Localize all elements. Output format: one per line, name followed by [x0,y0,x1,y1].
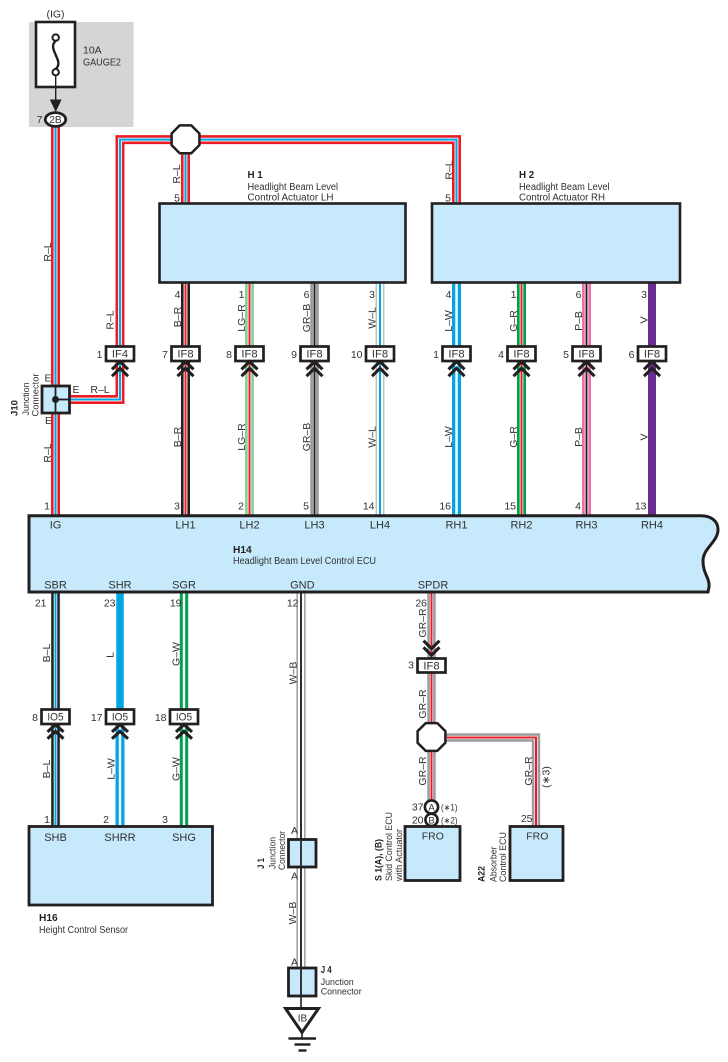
svg-text:LH1: LH1 [175,520,195,532]
svg-text:A: A [291,871,298,883]
connector 2B oval [45,113,65,127]
svg-text:23: 23 [104,597,116,609]
svg-text:(∗2): (∗2) [441,816,458,826]
svg-text:1: 1 [433,349,439,361]
svg-text:B: B [428,815,434,826]
svg-text:RH4: RH4 [641,520,663,532]
wire L-W H2 pin 4 to H14 pin RH1 [452,283,461,516]
svg-text:(∗3): (∗3) [541,766,553,788]
arrow chevrons at x=120.0 [112,362,128,377]
arrow chevrons at x=521.5 [514,362,530,377]
svg-text:16: 16 [439,500,451,512]
svg-text:2: 2 [238,500,244,512]
wire P-B H2 pin 6 to H14 pin RH3 [582,283,591,516]
svg-text:2B: 2B [49,115,62,126]
svg-text:RH1: RH1 [445,520,467,532]
svg-text:IF8: IF8 [372,349,388,361]
svg-text:A: A [291,957,298,969]
svg-text:A: A [291,825,298,837]
svg-text:B–R: B–R [172,306,184,327]
svg-text:3: 3 [162,814,168,826]
svg-text:IO5: IO5 [176,712,192,724]
connector IF8 pin 10 [351,347,394,362]
svg-text:R–L: R–L [444,160,456,179]
wire R-L branch J10 to IF4 to top rail and H2 pin 5 [68,140,457,400]
svg-text:5: 5 [303,500,309,512]
svg-text:2: 2 [103,814,109,826]
svg-text:12: 12 [287,597,299,609]
wire J4 to ground triangle [300,996,302,1009]
svg-text:R–L: R–L [90,384,109,396]
svg-text:8: 8 [226,349,232,361]
fuse F 10A GAUGE2 box [36,22,75,87]
arrow chevrons at x=652.0 [644,362,660,377]
svg-text:IF8: IF8 [241,349,257,361]
svg-text:IF8: IF8 [423,660,439,672]
svg-text:L–W: L–W [443,310,455,332]
svg-text:IF8: IF8 [513,349,529,361]
svg-text:IF8: IF8 [448,349,464,361]
svg-text:W–B: W–B [288,662,300,685]
svg-text:3: 3 [369,289,375,301]
svg-text:4: 4 [446,289,452,301]
svg-text:A: A [428,803,435,814]
svg-text:GAUGE2: GAUGE2 [83,57,121,69]
svg-text:1: 1 [511,289,517,301]
svg-text:FRO: FRO [526,830,548,842]
svg-text:19: 19 [170,597,182,609]
svg-text:GR–R: GR–R [417,756,429,786]
svg-text:Height Control Sensor: Height Control Sensor [39,925,129,936]
svg-text:8: 8 [32,712,38,724]
svg-text:LH4: LH4 [370,520,390,532]
svg-text:37: 37 [412,802,424,814]
op H1 Headlight Beam Level Control Actuator LH box [160,204,406,283]
arrow chevrons at x=314.5 [307,362,323,377]
svg-text:SHRR: SHRR [104,832,135,844]
junction connector J10 [42,386,70,413]
svg-text:RH2: RH2 [510,520,532,532]
connector circle B pin 20 [425,814,437,826]
svg-text:IF8: IF8 [644,349,660,361]
svg-text:25: 25 [521,813,533,825]
svg-text:E: E [44,373,51,385]
svg-text:R–L: R–L [42,242,54,261]
connector IO5 pin 18 [155,710,198,725]
svg-text:3: 3 [641,289,647,301]
wire B-R H1 pin 4 to H14 pin LH1 [181,283,190,516]
connector IF8 pin 9 [291,347,328,362]
arrow chevrons at x=380.0 [372,362,388,377]
svg-text:SHB: SHB [44,832,67,844]
arrowhead into 2B [50,100,62,113]
wire R-L octagon splice to H1 pin 5 [181,140,190,204]
connector IO5 pin 17 [91,710,134,725]
svg-text:13: 13 [635,500,647,512]
svg-text:LH2: LH2 [239,520,259,532]
svg-text:S 1(A), (B): S 1(A), (B) [374,839,385,881]
wire GR-R octagon splice to A22 pin 25 [432,738,537,827]
svg-text:IF8: IF8 [306,349,322,361]
wire B-L H14 SBR to H16 SHB [51,593,60,827]
svg-text:IF8: IF8 [177,349,193,361]
ECU A22 Absorber Control ECU box [510,827,563,881]
svg-text:P–B: P–B [573,427,585,447]
arrow chevrons down SPDR [424,641,440,656]
svg-text:14: 14 [363,500,375,512]
arrow chevrons at x=185.5 [178,362,194,377]
svg-text:IG: IG [50,520,62,532]
svg-text:5: 5 [174,193,180,205]
svg-text:LG–R: LG–R [236,423,248,451]
svg-text:R–L: R–L [42,443,54,462]
svg-text:Control Actuator RH: Control Actuator RH [519,193,605,204]
svg-text:1: 1 [44,500,50,512]
svg-text:V: V [639,316,651,323]
wire GR-R H14 SPDR to skid control ECU [427,593,435,801]
junction connector J4 [289,968,317,996]
svg-text:L: L [105,652,117,658]
svg-text:R–L: R–L [171,164,183,183]
svg-text:W–L: W–L [367,426,379,448]
svg-text:H 2: H 2 [519,170,535,181]
svg-text:7: 7 [162,349,168,361]
ground triangle IB [286,1009,319,1033]
svg-text:G–W: G–W [171,757,183,781]
svg-text:6: 6 [304,289,310,301]
svg-text:9: 9 [291,349,297,361]
svg-text:W–B: W–B [287,902,299,925]
svg-text:SBR: SBR [44,580,67,592]
connector IF8 pin 8 [226,347,263,362]
svg-text:1: 1 [97,349,103,361]
svg-text:IO5: IO5 [47,712,63,724]
svg-text:SPDR: SPDR [418,580,449,592]
svg-text:G–R: G–R [508,426,520,448]
svg-text:17: 17 [91,712,103,724]
svg-text:(∗1): (∗1) [441,803,458,813]
H16 pin names SHB SHRR SHG [44,832,196,844]
op H2 Headlight Beam Level Control Actuator RH box [432,204,680,283]
svg-text:21: 21 [35,597,47,609]
connector IF4 pin 1 [97,347,134,362]
svg-text:1: 1 [44,814,50,826]
svg-text:6: 6 [629,349,635,361]
svg-text:Headlight Beam Level Control E: Headlight Beam Level Control ECU [233,556,376,567]
svg-text:P–B: P–B [573,311,585,331]
wire G-R H2 pin 1 to H14 pin RH2 [517,283,526,516]
svg-text:IF8: IF8 [578,349,594,361]
svg-text:L–W: L–W [106,758,118,780]
svg-text:18: 18 [155,712,167,724]
arrow chevrons at x=249.5 [242,362,258,377]
wire V H2 pin 3 to H14 pin RH4 [648,283,656,516]
svg-text:1: 1 [239,289,245,301]
svg-text:G–W: G–W [171,642,183,666]
svg-text:4: 4 [575,500,581,512]
svg-text:GR–R: GR–R [417,608,429,638]
svg-text:SHG: SHG [172,832,196,844]
svg-text:3: 3 [408,660,414,672]
svg-text:10A: 10A [83,45,102,57]
svg-text:J10: J10 [10,400,21,416]
wire LG-R H1 pin 1 to H14 pin LH2 [245,283,254,516]
svg-text:R–L: R–L [105,310,117,329]
splice octagon top rail [172,125,200,153]
svg-text:with Actuator: with Actuator [394,829,405,882]
sensor H16 Height Control Sensor box [29,827,213,906]
svg-text:Headlight Beam Level: Headlight Beam Level [248,182,339,193]
gray background block of fuse [29,22,134,127]
svg-text:J 1: J 1 [256,857,267,869]
svg-text:Connector: Connector [321,987,362,998]
svg-text:Control Actuator LH: Control Actuator LH [248,193,334,204]
svg-text:LG–R: LG–R [236,304,248,332]
arrow chevrons at x=120.0 below IO5 [112,725,128,739]
connector IF8 pin 5 [563,347,600,362]
arrow chevrons at x=456.5 [449,362,465,377]
H14 bottom pin names SBR SHR SGR GND SPDR [44,580,448,592]
svg-text:5: 5 [563,349,569,361]
svg-text:26: 26 [415,597,427,609]
svg-text:B–R: B–R [172,426,184,447]
svg-text:GR–B: GR–B [301,423,313,452]
svg-text:7: 7 [37,114,43,126]
svg-text:4: 4 [175,289,181,301]
svg-text:5: 5 [445,193,451,205]
svg-text:B–L: B–L [41,644,53,663]
svg-text:Connector: Connector [30,374,41,417]
svg-text:GR–R: GR–R [417,689,429,719]
svg-text:H16: H16 [39,913,58,924]
svg-text:B–L: B–L [41,760,53,779]
connector IF8 pin 6 [629,347,666,362]
svg-text:IO5: IO5 [112,712,128,724]
svg-text:W–L: W–L [367,307,379,329]
svg-text:GR–R: GR–R [523,756,535,786]
svg-text:10: 10 [351,349,363,361]
connector circle A pin 37 [425,800,438,813]
svg-text:Control ECU: Control ECU [498,832,509,882]
ECU H14 Headlight Beam Level Control ECU box [29,516,718,592]
svg-text:A22: A22 [477,866,488,882]
svg-text:IB: IB [298,1014,308,1025]
svg-text:SHR: SHR [108,580,131,592]
junction connector J1 [289,840,317,868]
H14 top pin names IG LH1-LH4 RH1-RH4 [50,520,663,532]
wire R-L from 2B to H14 pin IG [51,127,60,516]
svg-text:E: E [45,415,52,427]
wire L-W IO5 to H16 SHRR [116,721,125,827]
svg-text:4: 4 [498,349,504,361]
svg-text:15: 15 [504,500,516,512]
svg-text:H14: H14 [233,545,252,556]
svg-text:H 1: H 1 [248,170,264,181]
wire GR-B H1 pin 6 to H14 pin LH3 [310,283,319,516]
svg-text:G–R: G–R [508,310,520,332]
svg-text:LH3: LH3 [304,520,324,532]
svg-text:GND: GND [290,580,315,592]
wire W-B H14 GND to J4 [297,593,306,996]
svg-text:E: E [72,384,79,396]
svg-text:L–W: L–W [443,426,455,448]
svg-text:V: V [639,433,651,440]
connector IO5 pin 8 [32,710,69,725]
svg-text:RH3: RH3 [575,520,597,532]
svg-text:GR–B: GR–B [301,304,313,333]
connector IF8 pin 7 [162,347,199,362]
connector IF8 pin 3 [408,659,445,673]
svg-text:Headlight Beam Level: Headlight Beam Level [519,182,610,193]
svg-text:IF4: IF4 [112,349,128,361]
svg-text:3: 3 [174,500,180,512]
svg-text:J 4: J 4 [321,965,332,976]
svg-text:SGR: SGR [172,580,196,592]
svg-text:(IG): (IG) [46,9,64,21]
wire W-L H1 pin 3 to H14 pin LH4 [376,283,385,516]
splice octagon GR-R [418,723,446,751]
connector IF8 pin 1 right [433,347,470,362]
wire fuse to connector 2B [55,75,57,101]
ground symbol [301,1033,303,1039]
arrow chevrons at x=55.5 below IO5 [48,725,64,739]
fuse element symbol [53,34,59,75]
svg-text:FRO: FRO [422,830,444,842]
connector IF8 pin 4 [498,347,535,362]
arrow chevrons at x=184.0 below IO5 [176,725,192,739]
wire G-W H14 SGR to H16 SHG [180,593,188,827]
wire L H14 SHR to IO5 [116,593,124,712]
svg-text:20: 20 [412,815,424,827]
arrow chevrons at x=586.5 [579,362,595,377]
ECU S1 Skid Control ECU box [405,827,460,881]
svg-text:Connector: Connector [277,831,288,870]
svg-text:6: 6 [576,289,582,301]
